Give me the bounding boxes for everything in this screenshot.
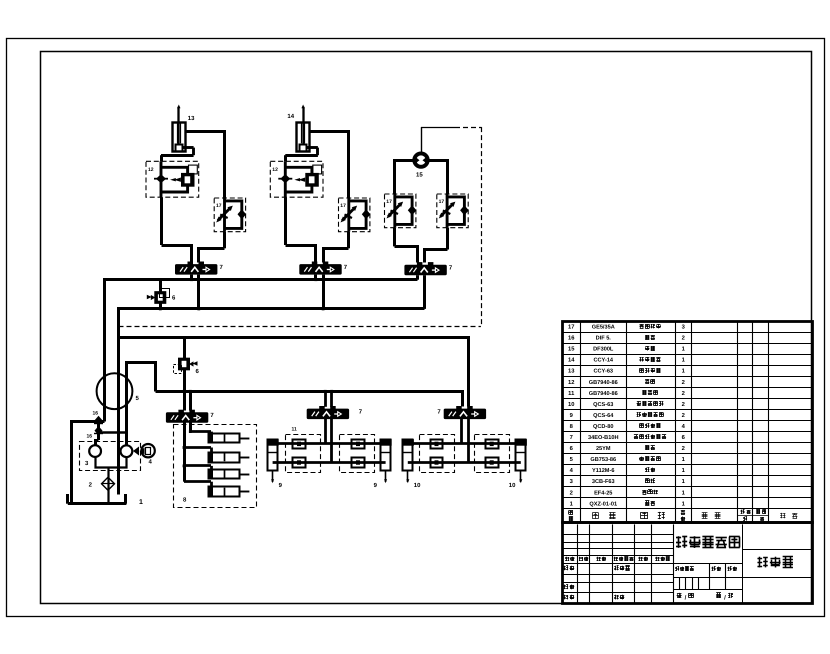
svg-text:DIF 5.: DIF 5. (596, 336, 612, 342)
svg-text:10: 10 (414, 482, 421, 489)
svg-text:15: 15 (568, 347, 575, 353)
svg-text:GB7940-86: GB7940-86 (589, 391, 618, 397)
svg-text:16: 16 (93, 411, 99, 417)
svg-text:2: 2 (682, 445, 685, 452)
svg-text:CCY-63: CCY-63 (593, 369, 613, 375)
svg-text:17: 17 (439, 199, 445, 205)
svg-text:15: 15 (416, 172, 423, 179)
svg-text:12: 12 (148, 167, 154, 173)
svg-text:7: 7 (570, 435, 573, 441)
svg-text:12: 12 (568, 379, 574, 386)
svg-text:GB753-86: GB753-86 (590, 457, 616, 463)
svg-text:10: 10 (509, 482, 516, 489)
svg-text:17: 17 (568, 325, 574, 331)
svg-text:2: 2 (682, 401, 685, 408)
svg-text:DF300L: DF300L (593, 347, 614, 353)
svg-text:EF4-25: EF4-25 (594, 490, 612, 496)
svg-text:QCS-63: QCS-63 (593, 402, 613, 408)
svg-text:CCY-14: CCY-14 (593, 358, 613, 364)
svg-text:13: 13 (568, 368, 575, 375)
svg-text:GB7940-86: GB7940-86 (589, 380, 618, 386)
svg-text:16: 16 (568, 335, 575, 342)
svg-text:2: 2 (682, 390, 685, 397)
svg-text:13: 13 (188, 115, 195, 122)
svg-text:QCS-64: QCS-64 (593, 413, 614, 419)
svg-text:17: 17 (340, 203, 346, 209)
svg-text:14: 14 (568, 358, 575, 364)
svg-text:25YM: 25YM (596, 446, 611, 452)
svg-text:3CB-F63: 3CB-F63 (592, 479, 615, 485)
svg-text:12: 12 (272, 167, 278, 173)
svg-text:34EO-B10H: 34EO-B10H (588, 435, 618, 441)
svg-text:17: 17 (216, 203, 222, 209)
svg-text:1: 1 (139, 499, 143, 506)
svg-text:17: 17 (386, 199, 392, 205)
svg-text:2: 2 (682, 379, 685, 386)
svg-text:QXZ-01-01: QXZ-01-01 (589, 501, 617, 507)
svg-text:2: 2 (682, 335, 685, 342)
svg-text:14: 14 (287, 113, 294, 120)
svg-text:2: 2 (570, 489, 573, 496)
svg-text:11: 11 (292, 427, 298, 433)
svg-text:11: 11 (568, 391, 575, 397)
svg-text:Y112M-6: Y112M-6 (592, 468, 614, 474)
svg-text:2: 2 (682, 412, 685, 419)
svg-text:16: 16 (87, 434, 93, 440)
svg-text:QCD-80: QCD-80 (593, 424, 614, 430)
svg-text:GE5/35A: GE5/35A (592, 324, 615, 331)
svg-text:10: 10 (568, 401, 574, 408)
